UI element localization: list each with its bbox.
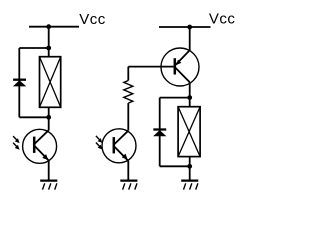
wire to diode branch (top) [19, 47, 48, 49]
node junction coil top / diode branch [46, 46, 51, 51]
wire Q2 collector down [189, 82, 191, 106]
diode D2 (flyback, cathode up) [153, 130, 166, 137]
svg-text:Vcc: Vcc [209, 10, 236, 27]
wire diode branch right to bottom junction [160, 165, 190, 167]
wire base corner down to resistor [127, 67, 129, 81]
wire Vcc to Q2 emitter [189, 27, 191, 50]
light arrow 2 into Q1 [13, 143, 20, 150]
phototransistor Q3 [102, 129, 136, 163]
transistor Q2 (PNP) [161, 48, 199, 86]
light arrow 2 into Q3 [96, 143, 103, 150]
wire Q2 base [128, 66, 173, 68]
node junction coil bottom / collector [46, 115, 51, 120]
node Vcc junction left [46, 24, 51, 29]
wire from Vcc down to coil/diode junction [48, 27, 50, 48]
node junction coil bottom right [187, 164, 192, 169]
diode D1 (flyback, cathode up) [13, 80, 26, 87]
wire to diode branch right (top) [160, 97, 190, 99]
wire Q1 emitter to ground [48, 160, 50, 180]
wire Vcc rail right [159, 26, 211, 28]
node junction collector / coil top right [187, 95, 192, 100]
light arrow 1 into Q3 [96, 136, 103, 143]
light arrow 1 into Q1 [13, 136, 20, 143]
relay coil K2 [178, 107, 200, 157]
node Vcc junction right [187, 25, 192, 30]
resistor R1 [124, 81, 133, 104]
svg-text:Vcc: Vcc [79, 11, 106, 28]
ground (right) [181, 181, 198, 190]
phototransistor Q1 [23, 129, 57, 163]
wire Q3 emitter to ground [127, 161, 129, 180]
wire coil top lead [48, 48, 50, 57]
wire diode branch right vertical [159, 98, 161, 167]
wire coil K2 bottom lead to ground [189, 157, 191, 180]
wire coil bottom lead [48, 107, 50, 130]
wire diode branch to bottom junction [19, 116, 48, 118]
ground (left) [40, 181, 57, 190]
relay coil K1 [40, 57, 61, 108]
wire Vcc rail left [29, 26, 79, 28]
wire resistor to Q3 collector [127, 103, 129, 130]
wire diode branch vertical [18, 48, 20, 117]
ground (middle) [120, 181, 137, 190]
